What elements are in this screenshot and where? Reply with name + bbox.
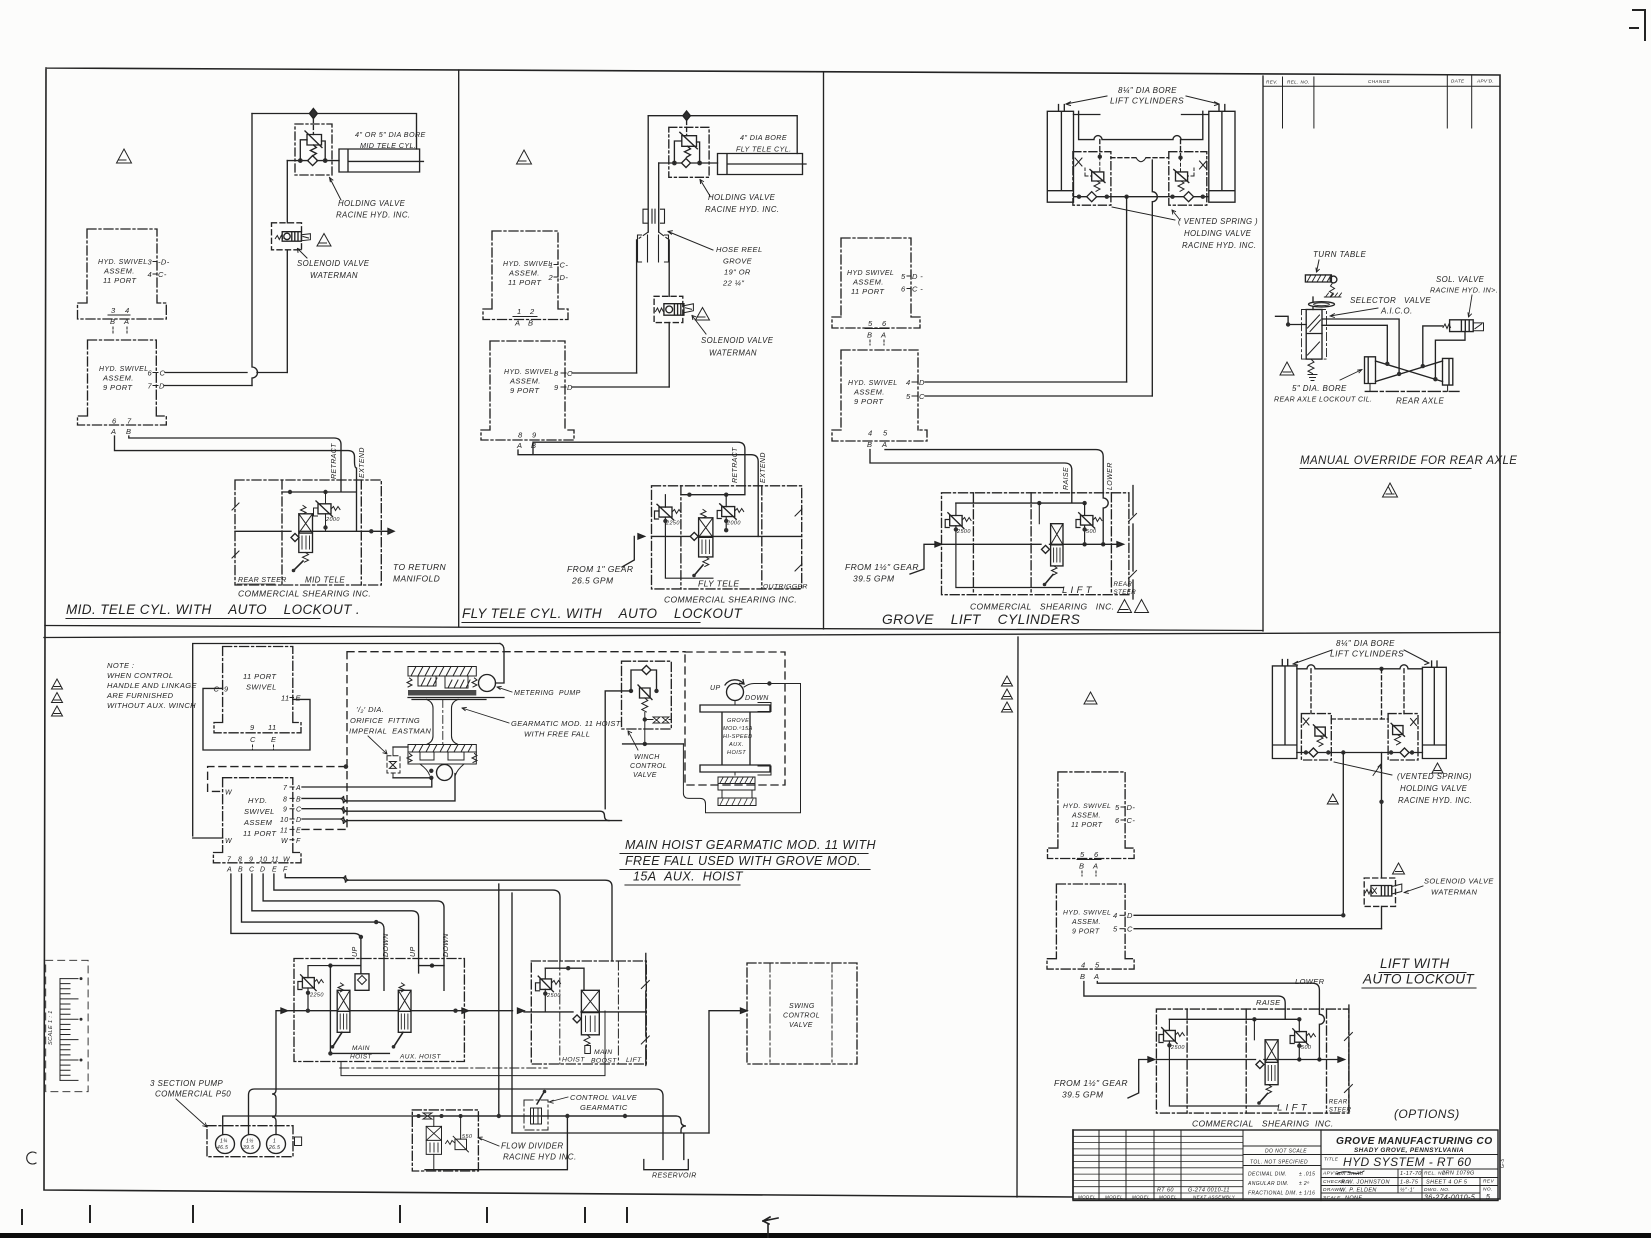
svg-text:AUX.: AUX. — [728, 742, 744, 748]
wire: D drop from manifold — [1126, 197, 1128, 382]
flow divider box — [412, 1110, 478, 1171]
bottom small arrow glyph — [763, 1217, 778, 1238]
svg-text:FROM 1½" GEAR: FROM 1½" GEAR — [845, 562, 919, 572]
entry wire from gear pump — [622, 536, 634, 567]
model grid rows — [1073, 1136, 1243, 1193]
11 port swivel (top) — [214, 647, 301, 733]
wire: A to LOWER — [885, 450, 1103, 493]
CV3 partitions — [973, 493, 1111, 595]
holding valve HV2 body line — [659, 162, 718, 164]
HV R relief — [1174, 170, 1189, 183]
svg-text:3: 3 — [148, 258, 153, 267]
HV1 side links — [300, 140, 325, 161]
wire: D line from port to riser — [164, 385, 252, 387]
CV3 spool valve — [1051, 524, 1063, 566]
solenoid valve SV6 body — [1371, 886, 1392, 897]
svg-text:RETRACT: RETRACT — [732, 447, 739, 483]
svg-text:A: A — [516, 441, 522, 450]
approval rows — [1321, 1178, 1498, 1194]
CV2 relief valve 2000 — [720, 504, 737, 520]
CV2 main line + entry arrow — [652, 535, 802, 537]
solenoid valve SV1 spring left — [275, 236, 283, 240]
HV L relief — [1090, 170, 1105, 183]
anchor hatched block — [1324, 293, 1341, 297]
svg-text:NEXT ASSEMBLY: NEXT ASSEMBLY — [1193, 1194, 1236, 1199]
svg-text:6: 6 — [882, 319, 887, 328]
svg-text:REAR AXLE: REAR AXLE — [1396, 397, 1444, 406]
svg-text:1-17-70: 1-17-70 — [1400, 1171, 1422, 1177]
REV table header text — [1266, 79, 1494, 85]
pump wires: c2 to bus — [249, 1089, 664, 1160]
motor under drum — [420, 764, 464, 775]
leaders vented spring — [1334, 762, 1392, 776]
CV1 check diamond — [291, 534, 299, 542]
warning triangle 2b — [1327, 794, 1338, 804]
leader solenoid valve — [298, 249, 308, 259]
svg-text:L I F T: L I F T — [1277, 1103, 1308, 1114]
winch valve bottom wire to aux hoist — [623, 743, 684, 745]
svg-text:D: D — [1127, 911, 1133, 920]
svg-text:RT 60: RT 60 — [1157, 1188, 1174, 1194]
svg-text:HOLDING VALVE: HOLDING VALVE — [708, 193, 776, 202]
svg-text:2500: 2500 — [1170, 1045, 1185, 1051]
CV1 left section stubs with break marks — [232, 503, 239, 558]
CV1 partition right — [360, 480, 362, 585]
HV bottom manifold line — [1074, 196, 1209, 198]
holding valve HV1 pilot stub from node — [312, 119, 314, 135]
svg-text:DWG. NO.: DWG. NO. — [1424, 1187, 1450, 1193]
svg-text:RAISE: RAISE — [1256, 998, 1281, 1007]
svg-text:TOL. NOT SPECIFIED: TOL. NOT SPECIFIED — [1250, 1160, 1308, 1166]
svg-text:R.W. JOHNSTON: R.W. JOHNSTON — [1341, 1180, 1390, 1186]
wire: C line (panel3) — [925, 395, 1152, 397]
leader gearmatic valve — [549, 1097, 568, 1103]
svg-text:D: D — [296, 817, 301, 824]
signature squiggle — [1336, 1171, 1364, 1174]
svg-text:6: 6 — [1115, 816, 1120, 825]
svg-text:VALVE: VALVE — [633, 772, 657, 779]
svg-text:W: W — [283, 857, 291, 864]
rear axle lockout cylinder L — [1365, 357, 1376, 384]
CV1 spool valve — [299, 514, 313, 553]
CV3 inner top line — [956, 493, 1085, 503]
svg-text:5: 5 — [1095, 961, 1100, 970]
cylinder ground stubs — [1370, 384, 1448, 392]
svg-text:1½: 1½ — [246, 1138, 254, 1145]
svg-text:SWIVEL: SWIVEL — [244, 807, 275, 816]
leader holding valve — [330, 178, 342, 201]
svg-text:5" DIA. BORE: 5" DIA. BORE — [1292, 384, 1347, 393]
warning triangle 4 (panel4) — [1280, 362, 1294, 375]
leaders to vented spring note — [1112, 207, 1180, 220]
hyd swivel assem 11 port (main) — [213, 778, 301, 863]
CV6 inner top line — [1169, 1009, 1299, 1019]
svg-text:5: 5 — [1486, 1194, 1490, 1201]
svg-text:4: 4 — [1081, 961, 1086, 970]
svg-text:HYD. SWIVEL: HYD. SWIVEL — [848, 380, 898, 387]
wire: B to retract — [129, 436, 341, 480]
solenoid valve SV2 dashed box — [654, 296, 683, 322]
svg-text:A: A — [880, 331, 886, 340]
CV2 check diamond — [690, 532, 698, 540]
svg-text:COMMERCIAL SHEARING INC.: COMMERCIAL SHEARING INC. — [238, 589, 371, 599]
HV R relief (panel6) — [1391, 723, 1404, 736]
svg-text:HYD. SWIVEL: HYD. SWIVEL — [1063, 910, 1111, 917]
svg-text:RESERVOIR: RESERVOIR — [652, 1173, 697, 1180]
svg-text:15A AUX. HOIST: 15A AUX. HOIST — [633, 870, 744, 884]
wire: C riser through solenoid — [286, 161, 288, 373]
CV3 check diamond — [1042, 545, 1050, 553]
svg-text:E: E — [296, 827, 301, 834]
bank2 relief 2500 — [538, 976, 553, 992]
svg-text:FLY TELE: FLY TELE — [698, 579, 739, 589]
warning triangle 3 — [1084, 692, 1097, 704]
svg-text:REL. NO.: REL. NO. — [1287, 80, 1310, 85]
solenoid valve SV2 actuator tab — [684, 304, 694, 313]
svg-text:ASSEM.: ASSEM. — [508, 269, 540, 278]
port wire E dashed — [302, 828, 346, 830]
harness wire A — [231, 874, 361, 959]
svg-text:SWIVEL: SWIVEL — [246, 683, 277, 692]
svg-text:1¾: 1¾ — [220, 1139, 228, 1145]
bank1 relief 2250 — [301, 975, 317, 991]
svg-text:4: 4 — [868, 429, 873, 438]
svg-text:IMPERIAL EASTMAN: IMPERIAL EASTMAN — [349, 727, 431, 736]
vertical divider panels 1/2 — [458, 70, 460, 627]
pilot junction dots — [1098, 155, 1102, 159]
svg-text:± 2º: ± 2º — [1299, 1181, 1309, 1187]
aux hoist text — [723, 718, 753, 756]
svg-text:CHANGE: CHANGE — [1368, 79, 1391, 84]
svg-text:8: 8 — [518, 431, 523, 440]
hyd swivel assem 11 port (panel3) — [832, 238, 920, 328]
holding valve HV2 spring — [685, 146, 691, 157]
svg-text:B: B — [528, 319, 533, 328]
svg-text:7: 7 — [127, 417, 132, 426]
svg-text:A: A — [123, 317, 129, 326]
X vent marks — [1075, 158, 1207, 169]
SV4 actuator tab — [1473, 323, 1483, 331]
svg-text:36-274-0010-5: 36-274-0010-5 — [1424, 1195, 1475, 1202]
svg-text:ASSEM.: ASSEM. — [852, 278, 884, 287]
wire drum left to orifice top — [393, 746, 408, 748]
CV2 spool valve — [699, 518, 713, 557]
holding valve HV2 pilot stub — [686, 120, 688, 135]
svg-text:( VENTED SPRING ): ( VENTED SPRING ) — [1178, 217, 1258, 226]
X vent marks (panel6) — [1303, 718, 1417, 726]
svg-text:AUX. HOIST: AUX. HOIST — [399, 1054, 441, 1061]
harness wire C — [252, 874, 419, 959]
svg-text:FROM 1" GEAR: FROM 1" GEAR — [567, 564, 633, 574]
top right corner scan marks — [1630, 10, 1645, 40]
svg-text:11 PORT: 11 PORT — [508, 278, 542, 287]
svg-text:TITLE: TITLE — [1324, 1157, 1339, 1162]
svg-text:9 PORT: 9 PORT — [510, 386, 540, 395]
svg-text:GROVE LIFT CYLINDERS: GROVE LIFT CYLINDERS — [882, 612, 1081, 627]
solenoid valve SV1 ball — [284, 233, 290, 239]
CV3 spool lever — [1045, 575, 1053, 585]
svg-text:HANDLE AND LINKAGE: HANDLE AND LINKAGE — [107, 681, 197, 690]
lift cylinder R (panel6) — [1422, 661, 1446, 759]
svg-text:8¼" DIA BORE: 8¼" DIA BORE — [1118, 86, 1177, 95]
left margin squiggle — [27, 1152, 36, 1164]
leader to orifice — [368, 736, 387, 754]
CV2 spool bottom spring — [703, 557, 709, 567]
check valve diamond HV2 — [682, 159, 691, 168]
leader gearmatic — [462, 707, 509, 723]
svg-text:E: E — [271, 735, 277, 744]
leader selector valve — [1330, 308, 1378, 317]
CV6 relief 2500 — [1162, 1028, 1177, 1044]
svg-text:CONTROL VALVE: CONTROL VALVE — [570, 1093, 638, 1102]
drops from bridge to holding valves — [1100, 140, 1181, 158]
svg-text:C: C — [1127, 925, 1133, 934]
svg-text:NONE: NONE — [1345, 1196, 1363, 1202]
flow divider relief 550 — [453, 1136, 468, 1152]
svg-text:GROVE: GROVE — [727, 718, 749, 724]
svg-text:UP: UP — [410, 946, 417, 957]
3 section pump box — [207, 1126, 293, 1157]
holding valve HV1 spring — [310, 145, 316, 156]
bank2 main line — [524, 1011, 646, 1013]
svg-text:DECIMAL DIM.: DECIMAL DIM. — [1248, 1172, 1287, 1178]
wire: riser through solenoid to D line — [668, 240, 670, 387]
svg-text:8: 8 — [238, 857, 242, 864]
svg-text:HOLDING VALVE: HOLDING VALVE — [1184, 229, 1252, 238]
svg-text:F: F — [296, 838, 301, 845]
svg-text:REV: REV — [1483, 1179, 1494, 1185]
svg-text:E: E — [296, 694, 302, 703]
model grid columns — [1099, 1130, 1243, 1201]
REV table header lines — [1263, 76, 1500, 128]
selector valve diagonals — [1308, 315, 1321, 355]
svg-text:11 PORT: 11 PORT — [851, 287, 885, 296]
svg-text:MANIFOLD: MANIFOLD — [393, 574, 440, 584]
svg-text:SOL. VALVE: SOL. VALVE — [1436, 275, 1485, 284]
svg-text:A: A — [881, 440, 887, 449]
svg-text:SOLENOID VALVE: SOLENOID VALVE — [1424, 877, 1494, 886]
svg-text:39.5: 39.5 — [243, 1145, 254, 1151]
pump shaft tab — [295, 1137, 302, 1146]
svg-text:ARE FURNISHED: ARE FURNISHED — [106, 691, 174, 700]
wire: A to extend — [115, 436, 357, 480]
bank2 spool — [581, 990, 599, 1034]
wire metering pump to top rail — [496, 644, 505, 684]
hyd swivel assem 9 port (panel1) — [78, 340, 167, 425]
CV1 inner top line — [282, 480, 357, 531]
svg-text:9: 9 — [250, 723, 255, 732]
svg-text:MODEL: MODEL — [1159, 1194, 1177, 1199]
wire B to RAISE (panel6) — [1084, 982, 1285, 1010]
svg-text:A: A — [1093, 972, 1099, 981]
svg-text:11: 11 — [280, 827, 288, 834]
harness wire E — [274, 874, 560, 961]
svg-text:(OPTIONS): (OPTIONS) — [1394, 1107, 1460, 1121]
CV3 relief valve 2500 — [948, 513, 964, 529]
svg-text:2: 2 — [529, 307, 535, 316]
cylinder FLY TELE CYL — [718, 154, 807, 175]
winch valve bowties — [653, 717, 669, 723]
svg-text:’/₂′ DIA.: ’/₂′ DIA. — [356, 705, 384, 714]
svg-text:RACINE HYD. IN˃.: RACINE HYD. IN˃. — [1430, 286, 1498, 295]
svg-text:G-274 0010-11: G-274 0010-11 — [1188, 1188, 1230, 1194]
svg-text:C-: C- — [158, 270, 167, 279]
svg-text:UP: UP — [710, 685, 721, 692]
warning triangle 3 — [517, 150, 532, 164]
pump wires: c1 to bus — [223, 1116, 686, 1135]
valve bank 2 dash-dot box — [531, 961, 646, 1064]
holding valve HV1 internals: pilot relief — [305, 131, 322, 148]
svg-text:C: C — [249, 867, 255, 874]
svg-text:9 PORT: 9 PORT — [854, 397, 884, 406]
svg-text:ASSEM.: ASSEM. — [102, 374, 134, 383]
svg-text:8: 8 — [283, 796, 287, 803]
CV6 LOWER hop — [1319, 1009, 1324, 1059]
warning triangle 4 (panel6) — [1393, 863, 1405, 874]
svg-text:F: F — [283, 867, 288, 874]
svg-text:2250: 2250 — [309, 993, 324, 999]
warning triangle 2 near text — [1432, 763, 1443, 773]
svg-text:SWING: SWING — [789, 1003, 815, 1010]
svg-text:W: W — [225, 790, 233, 797]
control valve block CV6 dash-dot box — [1156, 1009, 1349, 1113]
bottom edge tick marks — [22, 1206, 627, 1224]
svg-text:5: 5 — [901, 272, 906, 281]
svg-text:11: 11 — [271, 857, 279, 864]
harness wire B — [242, 874, 385, 959]
warning triangle 3 below title — [1383, 483, 1398, 497]
CV6 main line with arrows — [1156, 1059, 1338, 1061]
middle tolerance section lines — [1243, 1146, 1321, 1166]
right ports 7A 8B 9C 10D 11E WF — [280, 785, 302, 845]
check diamonds (panel6) — [1309, 748, 1409, 757]
vertical divider panels 2/3 — [823, 72, 825, 629]
bottom ports 7 8 9 10 11 W / A B C D E F — [226, 857, 291, 874]
horizontal divider: top of bottom panels — [44, 633, 1500, 638]
wire to swing valve — [709, 1011, 747, 1133]
svg-text:D -: D - — [912, 272, 923, 281]
svg-text:C -: C - — [912, 285, 923, 294]
node diamond on top line — [309, 109, 317, 119]
scale ruler — [60, 977, 83, 1080]
bank1 bottom inner line — [330, 1052, 389, 1054]
port wire D long with coil — [302, 817, 622, 825]
svg-text:C-: C- — [560, 261, 569, 270]
svg-text:11 PORT: 11 PORT — [1071, 822, 1103, 829]
hoist lower drum block (hatched) — [407, 745, 477, 765]
CV2 inner top line — [681, 486, 758, 537]
svg-text:FREE FALL USED WITH GROVE: FREE FALL USED WITH GROVE MOD. — [625, 854, 861, 868]
junction dots on HV1 line — [298, 158, 303, 163]
hyd swivel assem 11 port (panel6) — [1048, 772, 1135, 859]
bank1 main line with arrows — [287, 1010, 462, 1012]
selector valve stem — [1312, 297, 1314, 310]
bridge line — [1297, 665, 1423, 669]
wire: C drop through solenoid (panel6) — [1381, 753, 1383, 929]
svg-text:3 SECTION PUMP: 3 SECTION PUMP — [150, 1079, 223, 1088]
svg-text:HI-SPEED: HI-SPEED — [723, 734, 753, 740]
wire C line (panel6) — [1134, 928, 1381, 930]
svg-text:HOIST: HOIST — [727, 750, 746, 756]
svg-text:SHADY GROVE, PENNSYLVANIA: SHADY GROVE, PENNSYLVANIA — [1354, 1147, 1464, 1154]
svg-text:WATERMAN: WATERMAN — [709, 349, 757, 358]
svg-text:WITH FREE FALL: WITH FREE FALL — [524, 730, 590, 739]
svg-text:A: A — [295, 785, 301, 792]
wire: riser to C line — [636, 240, 638, 373]
svg-text:SOLENOID VALVE: SOLENOID VALVE — [701, 336, 774, 345]
scale ruler dashed box — [46, 960, 88, 1091]
svg-text:B: B — [110, 317, 115, 326]
svg-text:1-8-75: 1-8-75 — [1400, 1180, 1419, 1186]
svg-text:CONTROL: CONTROL — [630, 763, 667, 770]
selector valve inlet wire — [1276, 316, 1307, 324]
svg-text:UP: UP — [352, 946, 359, 957]
svg-text:WATERMAN: WATERMAN — [310, 271, 358, 280]
holding valve box L (panel3) — [1073, 152, 1111, 206]
warning triangle 2 (beside SV1) — [317, 234, 331, 247]
svg-text:NOTE :: NOTE : — [107, 661, 134, 670]
svg-text:MID TELE: MID TELE — [305, 576, 345, 585]
reservoir symbol — [644, 1160, 689, 1170]
svg-text:COMMERCIAL SHEARING INC.: COMMERCIAL SHEARING INC. — [1192, 1119, 1334, 1129]
svg-text:11: 11 — [281, 694, 290, 703]
wire A to LOWER (panel6) — [1097, 982, 1319, 1010]
leader to cylinder — [1340, 370, 1362, 381]
bank1 inner top line — [330, 959, 444, 991]
svg-text:1: 1 — [517, 307, 522, 316]
warning triangles 2 3 4 (left) — [52, 679, 63, 689]
manifold junction dots — [1077, 195, 1081, 199]
rear axle ground line — [1365, 390, 1459, 392]
wire: second riser from HV2 line — [658, 163, 660, 232]
svg-text:APV'D.: APV'D. — [1476, 79, 1494, 84]
svg-text:A.I.C.O.: A.I.C.O. — [1380, 307, 1413, 316]
svg-text:2RN 1079G: 2RN 1079G — [1441, 1171, 1475, 1177]
svg-text:METERING PUMP: METERING PUMP — [514, 690, 581, 697]
svg-text:RACINE HYD. INC.: RACINE HYD. INC. — [336, 211, 410, 220]
svg-text:1: 1 — [273, 1139, 276, 1145]
pump section 1 — [216, 1135, 235, 1154]
aux hoist wires — [683, 684, 800, 813]
holding valve box R (panel6) — [1388, 714, 1418, 760]
svg-text:7: 7 — [283, 785, 288, 792]
svg-text:D: D — [260, 867, 265, 874]
svg-text:W: W — [225, 838, 233, 845]
svg-text:6: 6 — [901, 285, 906, 294]
flow divider bottom wire — [425, 1116, 567, 1170]
svg-text:REAR: REAR — [1114, 581, 1133, 588]
bank1 check valve box — [355, 974, 369, 991]
wire bank1 to bank2 — [469, 1010, 525, 1012]
svg-text:4: 4 — [125, 306, 130, 315]
CV6 spool lever — [1260, 1094, 1268, 1103]
svg-text:2000: 2000 — [726, 521, 741, 527]
bank2 partitions — [560, 961, 619, 1064]
leader to turn table — [1316, 260, 1319, 272]
leader flow divider — [478, 1137, 499, 1146]
hose reel brackets — [637, 209, 670, 262]
wire: top line from D riser to cylinder — [252, 114, 417, 150]
svg-text:EXTEND: EXTEND — [760, 452, 767, 483]
svg-text:4: 4 — [1113, 911, 1118, 920]
CV3 relief valve 500 — [1079, 513, 1095, 529]
holding valve HV2 pilot relief — [680, 132, 698, 149]
svg-text:5: 5 — [1115, 803, 1120, 812]
crossed linkage wires — [1376, 361, 1443, 382]
lift cylinder L (panel3) — [1047, 105, 1073, 203]
svg-text:2: 2 — [548, 273, 554, 282]
valve bank 1 dash-dot box — [294, 959, 464, 1062]
